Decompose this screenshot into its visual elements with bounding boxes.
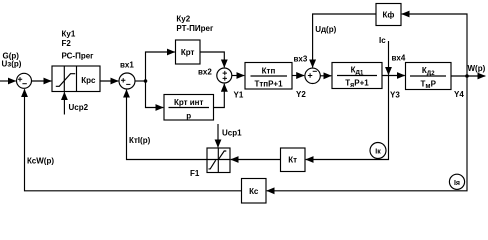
svg-text:Крт: Крт — [181, 48, 195, 57]
svg-text:Y2: Y2 — [296, 90, 306, 99]
svg-text:вх1: вх1 — [120, 61, 134, 70]
svg-text:Iя: Iя — [454, 180, 460, 187]
svg-text:Y1: Y1 — [234, 91, 244, 100]
svg-text:вх2: вх2 — [198, 68, 212, 77]
svg-text:Крт инт: Крт инт — [174, 98, 204, 107]
svg-text:Iк: Iк — [375, 149, 381, 156]
svg-text:Крс: Крс — [81, 76, 96, 85]
svg-text:Y4: Y4 — [454, 90, 464, 99]
svg-text:Ку1: Ку1 — [62, 30, 76, 39]
svg-text:Uз(p): Uз(p) — [2, 60, 22, 69]
svg-text:Uд(p): Uд(p) — [315, 25, 336, 34]
svg-text:Uср1: Uср1 — [222, 129, 242, 138]
svg-text:Кс: Кс — [249, 187, 259, 196]
svg-text:Кд1: Кд1 — [351, 66, 364, 77]
svg-text:Кд2: Кд2 — [422, 66, 435, 77]
svg-text:ТяР+1: ТяР+1 — [345, 79, 369, 90]
svg-text:p: p — [186, 112, 191, 121]
svg-text:РТ-ПИрег: РТ-ПИрег — [176, 24, 214, 33]
svg-text:Y3: Y3 — [390, 91, 400, 100]
svg-text:Iс: Iс — [379, 36, 386, 45]
svg-text:вх3: вх3 — [294, 55, 308, 64]
svg-text:Uср2: Uср2 — [69, 103, 89, 112]
svg-text:F2: F2 — [62, 39, 72, 48]
svg-text:ТтпР+1: ТтпР+1 — [254, 80, 283, 89]
svg-text:F1: F1 — [190, 169, 200, 178]
svg-text:КтI(p): КтI(p) — [129, 136, 151, 145]
svg-text:Кт: Кт — [288, 156, 297, 165]
svg-text:Ктп: Ктп — [262, 67, 276, 76]
svg-text:Ку2: Ку2 — [176, 15, 190, 24]
svg-text:РС-Прег: РС-Прег — [62, 52, 95, 61]
svg-text:Кф: Кф — [383, 11, 395, 20]
svg-text:ТмР: ТмР — [420, 80, 436, 91]
svg-text:КсW(p): КсW(p) — [27, 157, 54, 166]
svg-text:W(p): W(p) — [468, 64, 486, 73]
svg-text:вх4: вх4 — [392, 54, 406, 63]
